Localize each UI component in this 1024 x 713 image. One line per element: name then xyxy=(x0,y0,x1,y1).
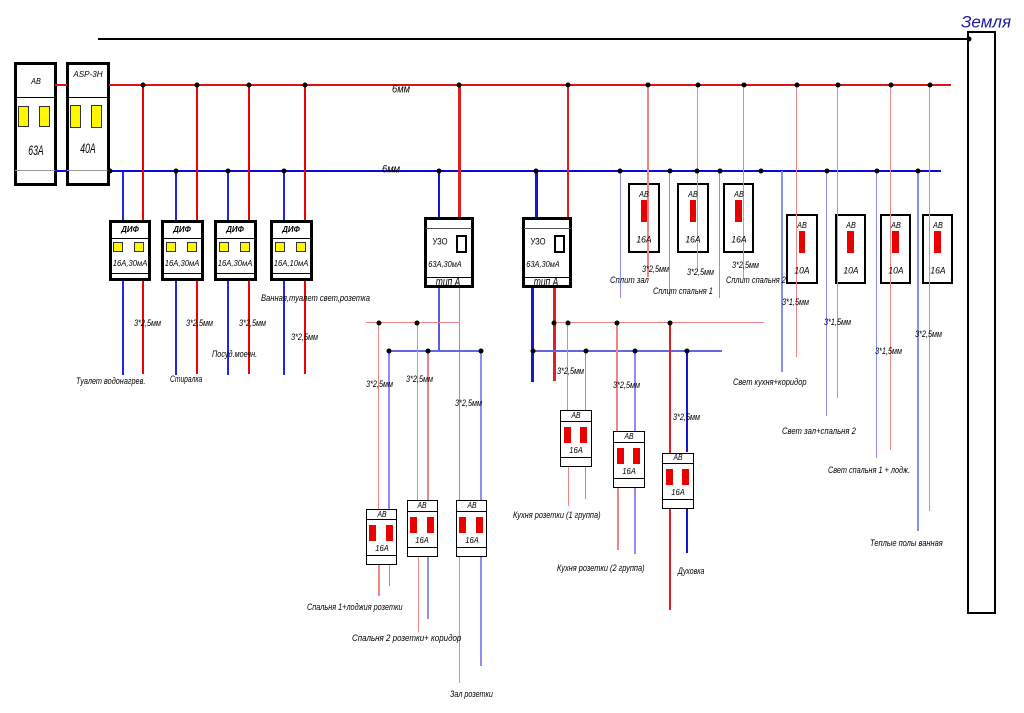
wire phase drop to AB-K1 xyxy=(567,322,568,410)
DIF4 yellow pole 1 xyxy=(275,242,285,252)
UZO1 rating label xyxy=(428,259,461,268)
DIF2 yellow pole 1 xyxy=(166,242,176,252)
wire phase feed through AB-G xyxy=(929,85,930,511)
phase bus tap dot DIF3 xyxy=(246,82,251,87)
neutral bus tap dot xyxy=(618,168,623,173)
neutral bus tap dot UZO2 xyxy=(534,168,539,173)
breaker AB-ZL body xyxy=(456,500,488,557)
label: 3*1,5мм xyxy=(782,298,809,308)
DIF3 yellow pole 1 xyxy=(219,242,229,252)
breaker AB-C body xyxy=(723,183,755,253)
AB-S2 top separator xyxy=(407,511,439,512)
AB-K2 rating label xyxy=(622,467,636,476)
wire phase feed through AB-A xyxy=(647,85,648,277)
wire neutral feed to DIF1 xyxy=(122,171,124,220)
rail junction dot xyxy=(478,349,483,354)
wire phase feed to DIF3 xyxy=(248,85,250,220)
wire phase drop to AB-DU (oven) xyxy=(669,322,672,453)
phase bus tap dot AB-F xyxy=(888,82,893,87)
wire neutral drop beside AB-B xyxy=(669,171,670,296)
neutral bus tap dot xyxy=(874,168,879,173)
UZO2 top separator xyxy=(524,228,570,229)
wire UZO2 output neutral stub xyxy=(531,288,534,382)
DIF2 yellow pole 2 xyxy=(187,242,197,252)
UZO1 label xyxy=(432,237,447,247)
label: Кухня розетки (1 группа) xyxy=(513,511,601,521)
AB-F rating label xyxy=(888,266,903,276)
AB-S2 red pole 1 xyxy=(410,517,417,533)
AB-S2 rating label xyxy=(416,536,430,545)
AB-S2 lower separator xyxy=(407,547,439,548)
label: Туалет водонагрев. xyxy=(76,377,145,387)
AB 63A yellow pole 2 xyxy=(39,106,50,127)
neutral bus tap dot xyxy=(667,168,672,173)
AB-DU lower separator xyxy=(662,499,694,500)
label: 3*2,5мм xyxy=(732,261,759,271)
phase bus tap dot AB-D xyxy=(794,82,799,87)
AB-A red pole xyxy=(641,200,648,222)
DIF1 lower separator xyxy=(111,273,150,274)
DIF3 separator xyxy=(216,238,255,239)
AB-C red pole xyxy=(735,200,742,222)
label: Свет зал+спальня 2 xyxy=(782,427,856,437)
rail junction dot xyxy=(376,320,381,325)
RCBO DIF2 body xyxy=(161,220,204,281)
AB-S1 red pole 1 xyxy=(369,525,376,541)
breaker AB-K2 body xyxy=(613,431,645,488)
breaker AB-F body xyxy=(880,214,912,284)
rail junction dot xyxy=(614,320,619,325)
neutral bus 6mm xyxy=(109,170,941,172)
phase bus tap dot DIF4 xyxy=(302,82,307,87)
AB-K1 lower separator xyxy=(560,457,592,458)
neutral bus tap dot xyxy=(717,168,722,173)
AB-S2 red pole 2 xyxy=(427,517,434,533)
wire phase feed to DIF4 xyxy=(304,85,306,220)
wire phase feed to DIF2 xyxy=(196,85,198,220)
wire DIF1 output phase xyxy=(142,281,144,374)
breaker AB-DU body xyxy=(662,453,694,510)
AB-K1 label xyxy=(571,412,580,420)
AB-B red pole xyxy=(690,200,697,222)
DIF3 yellow pole 2 xyxy=(240,242,250,252)
wire DIF2 output neutral xyxy=(175,281,177,375)
label: 3*2,5мм xyxy=(557,367,584,377)
DIF2 label xyxy=(173,225,191,234)
wire AB-DU output neutral (oven) xyxy=(686,509,689,553)
AB-S1 rating label xyxy=(375,544,389,553)
neutral bus tap dot DIF3 xyxy=(226,168,231,173)
AB 63A lower separator xyxy=(15,170,56,171)
AB-E red pole xyxy=(847,231,854,253)
label: Стиралка xyxy=(170,375,202,385)
label: 3*2,5мм xyxy=(406,375,433,385)
rail junction dot xyxy=(425,349,430,354)
wire phase feed through AB-D xyxy=(796,85,797,357)
AB-K1 rating label xyxy=(569,445,583,454)
UZO2 bottom separator xyxy=(524,277,570,278)
rail junction dot xyxy=(632,349,637,354)
DIF4 rating label xyxy=(274,258,309,267)
AB-ZL red pole 2 xyxy=(476,517,483,533)
UZO1 switch rectangle xyxy=(456,235,467,254)
wire neutral feed to DIF3 xyxy=(227,171,229,220)
AB-E label xyxy=(846,221,856,230)
breaker AB-E body xyxy=(835,214,867,284)
ground bar (Zemlya) xyxy=(967,31,996,614)
rail end junction dot xyxy=(552,320,557,325)
AB-DU rating label xyxy=(671,488,685,497)
UZO2 label xyxy=(530,237,545,247)
AB-G label xyxy=(933,221,943,230)
phase bus tap dot DIF2 xyxy=(194,82,199,87)
wire AB-ZL output phase xyxy=(459,557,460,683)
RCBO DIF4 body xyxy=(270,220,313,281)
neutral bus tap dot UZO1 xyxy=(436,168,441,173)
phase bus tap dot DIF1 xyxy=(141,82,146,87)
label: 3*2,5мм xyxy=(613,381,640,391)
phase bus tap dot AB-E xyxy=(835,82,840,87)
UZO1 bottom separator xyxy=(426,277,472,278)
wire neutral feed to UZO2 xyxy=(535,171,538,217)
phase bus tap dot AB-G xyxy=(927,82,932,87)
RCBO DIF3 body xyxy=(214,220,257,281)
label: Ванная,туалет свет,розетка xyxy=(261,294,370,304)
neutral bus tap dot DIF4 xyxy=(282,168,287,173)
wire neutral drop beside AB-A xyxy=(620,171,621,298)
wire phase feed through AB-C xyxy=(743,85,744,278)
wire drop to AB-S2 right pole xyxy=(427,351,428,501)
AB-ZL rating label xyxy=(465,536,479,545)
phase bus tap dot AB-C xyxy=(741,82,746,87)
ASP-3H yellow pole 2 xyxy=(91,105,102,128)
wire DIF4 output neutral xyxy=(283,281,285,375)
label: 3*2,5мм xyxy=(642,265,669,275)
label: Сплит спальня 1 xyxy=(653,287,713,297)
AB-K2 lower separator xyxy=(613,478,645,479)
wire DIF1 output neutral xyxy=(122,281,124,375)
phase bus tap dot UZO1 xyxy=(457,82,462,87)
rail junction dot xyxy=(583,349,588,354)
RCBO DIF1 body xyxy=(109,220,152,281)
breaker AB-K1 body xyxy=(560,410,592,467)
wire neutral feed to UZO1 xyxy=(438,171,441,217)
wire UZO1 output neutral xyxy=(438,288,441,351)
AB-C rating label xyxy=(731,235,746,245)
neutral bus start dot xyxy=(108,168,113,173)
UZO2 neutral distribution rail xyxy=(533,350,723,352)
breaker AB-A body xyxy=(628,183,660,253)
breaker AB-D body xyxy=(786,214,818,284)
wire AB-S2 output phase xyxy=(418,557,419,632)
PE junction dot xyxy=(966,36,971,41)
AB 63A yellow pole 1 xyxy=(18,106,29,127)
wire phase feed through AB-F xyxy=(890,85,891,450)
AB-K2 label xyxy=(624,433,633,441)
wire phase feed to UZO2 xyxy=(567,85,570,217)
wire AB-K1 output phase xyxy=(568,467,569,506)
AB-S1 top separator xyxy=(366,519,398,520)
wire neutral drop beside AB-E xyxy=(826,171,827,416)
breaker AB-G body xyxy=(922,214,954,284)
rail junction dot xyxy=(565,320,570,325)
rail junction dot xyxy=(684,349,689,354)
AB-DU top separator xyxy=(662,463,694,464)
DIF4 label xyxy=(282,225,300,234)
wire neutral drop to AB-ZL xyxy=(480,351,481,501)
AB-A rating label xyxy=(636,235,651,245)
phase bus label 6mm xyxy=(392,85,410,96)
neutral bus jumper between AB and ASP xyxy=(55,170,67,172)
wire neutral drop to AB-K1 xyxy=(585,351,586,410)
AB-C label xyxy=(734,189,744,198)
label: 3*2,5мм xyxy=(673,413,700,423)
label: Кухня розетки (2 группа) xyxy=(557,564,645,574)
wire AB-K2 output neutral xyxy=(634,488,635,554)
label: 3*1,5мм xyxy=(824,318,851,328)
wire phase feed to DIF1 xyxy=(142,85,144,220)
AB-D rating label xyxy=(794,266,809,276)
ground label Zemlya xyxy=(961,14,1011,31)
DIF1 yellow pole 2 xyxy=(134,242,144,252)
UZO1 type A label xyxy=(436,276,461,289)
AB-K2 top separator xyxy=(613,442,645,443)
phase bus tap dot AB-B xyxy=(695,82,700,87)
phase bus tap dot UZO2 xyxy=(565,82,570,87)
label: 3*2,5мм xyxy=(687,268,714,278)
UZO1 neutral distribution rail xyxy=(389,350,482,352)
RCD UZO1 body xyxy=(424,217,474,288)
DIF4 separator xyxy=(272,238,311,239)
label: 3*2,5мм xyxy=(915,330,942,340)
DIF1 rating label xyxy=(112,258,147,267)
UZO2 rating label xyxy=(526,259,559,268)
AB-E rating label xyxy=(843,266,858,276)
label: Посуд.моечн. xyxy=(212,350,257,360)
AB-K1 red pole 2 xyxy=(580,427,587,443)
wire DIF2 output phase xyxy=(196,281,198,374)
wire phase feed through AB-E xyxy=(837,85,838,398)
UZO2 phase distribution rail xyxy=(554,322,764,324)
AB-DU red pole 1 xyxy=(666,469,673,485)
wire phase drop to AB-K2 xyxy=(616,322,617,431)
wire DIF3 output neutral xyxy=(227,281,229,375)
wire DIF3 output phase xyxy=(248,281,250,374)
AB 63A value label xyxy=(28,143,43,157)
breaker AB-S1 body xyxy=(366,509,398,566)
wire neutral drop to AB-S1 xyxy=(388,351,389,509)
rail junction dot xyxy=(667,320,672,325)
label: 3*2,5мм xyxy=(455,399,482,409)
ASP-3H lower separator xyxy=(67,170,109,171)
AB-S2 label xyxy=(418,502,427,510)
DIF3 rating label xyxy=(218,258,253,267)
label: Зал розетки xyxy=(450,690,493,700)
wire AB-K2 output phase xyxy=(617,488,618,550)
AB-B rating label xyxy=(685,235,700,245)
wire AB-S2 output neutral xyxy=(427,557,428,619)
AB-ZL label xyxy=(467,502,476,510)
AB-K2 red pole 1 xyxy=(617,448,624,464)
wire AB-DU output phase (oven) xyxy=(669,509,672,610)
AB-ZL lower separator xyxy=(456,547,488,548)
breaker AB-B body xyxy=(677,183,709,253)
wire DIF4 output phase xyxy=(304,281,306,374)
AB-S1 label xyxy=(377,511,386,519)
wire phase feed through AB-B xyxy=(697,85,698,272)
DIF3 label xyxy=(226,225,244,234)
AB-K2 red pole 2 xyxy=(633,448,640,464)
DIF3 lower separator xyxy=(216,273,255,274)
DIF2 lower separator xyxy=(163,273,202,274)
wire phase drop to AB-S1 xyxy=(378,322,379,509)
label: Спальня 2 розетки+ коридор xyxy=(352,634,461,644)
label: 3*1,5мм xyxy=(875,347,902,357)
wire phase drop to AB-S2 xyxy=(417,322,418,500)
phase bus 6mm xyxy=(109,84,951,86)
UZO1 top separator xyxy=(426,228,472,229)
AB-K1 top separator xyxy=(560,421,592,422)
AB-S1 red pole 2 xyxy=(386,525,393,541)
label: 3*2,5мм xyxy=(186,319,213,329)
wire neutral drop to AB-DU (oven) xyxy=(686,351,689,453)
AB-DU label xyxy=(673,454,682,462)
rail end junction dot xyxy=(530,349,535,354)
AB-F label xyxy=(891,221,901,230)
DIF4 yellow pole 2 xyxy=(296,242,306,252)
label: Теплые полы ванная xyxy=(870,539,943,549)
neutral bus tap dot xyxy=(824,168,829,173)
label: Сплит спальня 2 xyxy=(726,276,786,286)
ASP-3H label xyxy=(73,70,102,79)
label: 3*2,5мм xyxy=(134,319,161,329)
phase bus tap dot AB-A xyxy=(646,82,651,87)
neutral bus tap dot DIF2 xyxy=(173,168,178,173)
AB 63A label xyxy=(31,77,41,86)
wire AB-S1 output neutral xyxy=(389,565,390,586)
neutral bus tap dot xyxy=(695,168,700,173)
label: Спальня 1+лоджия розетки xyxy=(307,603,403,613)
wire phase feed to UZO1 xyxy=(458,85,461,217)
AB-A label xyxy=(639,189,649,198)
wire UZO1 output phase down to AB-ZL xyxy=(459,288,461,500)
AB-B label xyxy=(688,189,698,198)
AB-DU red pole 2 xyxy=(682,469,689,485)
UZO1 phase distribution rail xyxy=(366,322,461,324)
surge protector ASP-3H 40A body xyxy=(66,62,110,186)
wire neutral drop beside AB-D xyxy=(781,171,782,372)
wire neutral drop to AB-K2 xyxy=(634,351,635,432)
DIF4 lower separator xyxy=(272,273,311,274)
label: 3*2,5мм xyxy=(239,319,266,329)
DIF1 separator xyxy=(111,238,150,239)
ASP-3H separator xyxy=(67,97,109,98)
AB-ZL top separator xyxy=(456,511,488,512)
AB-ZL red pole 1 xyxy=(459,517,466,533)
ASP-3H yellow pole 1 xyxy=(70,105,81,128)
ASP-3H value label xyxy=(80,141,95,155)
label: Свет спальня 1 + лодж. xyxy=(828,466,910,476)
rail junction dot xyxy=(387,349,392,354)
AB-G rating label xyxy=(930,266,945,276)
AB 63A separator xyxy=(15,97,56,98)
DIF1 yellow pole 1 xyxy=(113,242,123,252)
AB-D label xyxy=(797,221,807,230)
phase bus jumper between AB and ASP xyxy=(55,84,67,86)
AB-D red pole xyxy=(799,231,806,253)
wire neutral drop beside AB-C xyxy=(719,171,720,298)
rail junction dot xyxy=(415,320,420,325)
label: 3*2,5мм xyxy=(291,333,318,343)
wire AB-S1 output phase xyxy=(378,565,379,596)
label: Свет кухня+коридор xyxy=(733,378,807,388)
wire UZO2 output phase stub xyxy=(553,288,556,381)
UZO2 switch rectangle xyxy=(554,235,565,254)
main breaker AB 63A body xyxy=(14,62,57,186)
UZO2 type A label xyxy=(534,276,559,289)
label: 3*2,5мм xyxy=(366,380,393,390)
AB-G red pole xyxy=(934,231,941,253)
breaker AB-S2 body xyxy=(407,500,439,557)
AB-S1 lower separator xyxy=(366,555,398,556)
wire AB-K1 output neutral xyxy=(585,467,586,499)
PE top wire xyxy=(98,38,968,40)
AB-K1 red pole 1 xyxy=(564,427,571,443)
neutral bus tap dot xyxy=(758,168,763,173)
wire neutral drop beside AB-G xyxy=(917,171,918,531)
neutral bus label 6mm xyxy=(382,165,400,176)
DIF2 separator xyxy=(163,238,202,239)
wire neutral feed to DIF2 xyxy=(175,171,177,220)
DIF1 label xyxy=(121,225,139,234)
wire neutral drop beside AB-F xyxy=(876,171,877,458)
RCD UZO2 body xyxy=(522,217,572,288)
neutral bus tap dot xyxy=(916,168,921,173)
label: Сплит зал xyxy=(610,276,649,286)
wire AB-ZL output neutral xyxy=(480,557,481,667)
label: Духовка xyxy=(678,567,704,577)
AB-F red pole xyxy=(892,231,899,253)
wire neutral feed to DIF4 xyxy=(283,171,285,220)
DIF2 rating label xyxy=(165,258,200,267)
